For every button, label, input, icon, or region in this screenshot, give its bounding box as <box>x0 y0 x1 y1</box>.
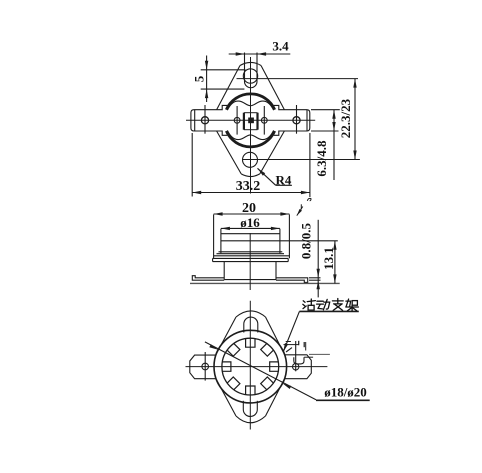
bottom view cap outer circle <box>214 330 287 403</box>
bottom view right tab <box>285 341 311 379</box>
dimension 6.3/4.8 line and arrows <box>332 110 335 180</box>
top view inner contact circle left <box>234 106 240 135</box>
side view cap cylinder edges / extension lines for 16 <box>221 229 280 254</box>
bottom view vertical centerline <box>249 301 251 430</box>
side view cap top and ribs <box>214 234 338 256</box>
svg-text:0.8/0.5: 0.8/0.5 <box>299 222 314 259</box>
dimension 13.1 line and arrows <box>333 241 336 284</box>
dimension 6.3/4.8 extension lines <box>311 110 340 131</box>
dimension 20 line and arrows <box>214 212 290 215</box>
dimension 5 line and arrows <box>205 56 208 103</box>
bottom view cap inner circle <box>222 338 279 395</box>
bottom view top keyhole slot <box>244 317 258 332</box>
top view bimetal bottom wave <box>227 130 273 139</box>
dimension 22.3/23 line and arrows <box>353 79 356 160</box>
side view ceramic base <box>224 262 276 280</box>
bottom hole horizontal centerline / extension for 22.3-23 <box>242 159 360 161</box>
label diameter18/20 text and underline <box>316 384 370 400</box>
surface finish mark <box>297 198 311 215</box>
dimension 0.8/0.5 extension lines <box>309 278 321 280</box>
top view right terminal hole <box>293 105 300 134</box>
side view right terminal <box>276 278 308 283</box>
svg-text:6.3/4.8: 6.3/4.8 <box>314 140 329 177</box>
top view terminal bar left <box>191 105 227 135</box>
svg-text:22.3/23: 22.3/23 <box>338 98 353 138</box>
dimension 3.4 line and arrows <box>229 52 291 55</box>
top view right terminal end fold line <box>306 110 308 131</box>
top view bottom mounting hole <box>243 152 258 167</box>
bottom view left tab <box>190 352 216 381</box>
top view inner contact circle right <box>261 106 267 135</box>
top view left terminal hole <box>201 105 208 134</box>
top view center contact block <box>244 113 258 130</box>
small terminal detail lines near right tab <box>284 341 330 364</box>
top view body circle thick bottom arc <box>226 131 274 147</box>
dimension 33.2 line and arrows <box>192 191 310 194</box>
label R4 leader and arrow <box>258 168 292 185</box>
top view vertical centerline <box>250 57 252 194</box>
side view left terminal <box>192 276 224 281</box>
dimension 33.2 extension lines <box>192 133 310 197</box>
top view bimetal top wave <box>227 101 273 110</box>
top view body circle thick top arc <box>226 94 274 110</box>
side view vertical centerline <box>249 233 251 290</box>
bottom view bottom keyhole slot <box>243 401 257 417</box>
svg-text:ø16: ø16 <box>240 215 260 230</box>
svg-text:ø18/ø20: ø18/ø20 <box>324 384 367 399</box>
bottom view flange outline <box>216 311 285 423</box>
svg-text:20: 20 <box>242 201 256 216</box>
svg-text:13.1: 13.1 <box>321 247 336 270</box>
top view horizontal centerline <box>186 119 315 121</box>
label movable bracket leader <box>283 311 359 352</box>
side view flange plate <box>213 258 289 261</box>
svg-text:R4: R4 <box>276 172 292 187</box>
svg-text:3.4: 3.4 <box>272 39 289 54</box>
top view terminal bar right <box>274 105 310 135</box>
label movable bracket characters <box>303 299 359 311</box>
top hole horizontal centerline / extension for 22.3-23 <box>237 78 359 80</box>
svg-text:33.2: 33.2 <box>236 179 261 194</box>
dimension 5 extension lines <box>201 70 246 89</box>
dimension diameter16 line and arrows <box>221 227 280 230</box>
dimension 0.8/0.5 line and arrows <box>317 220 320 298</box>
dimension diameter18/20 diagonal line and arrows <box>205 342 316 400</box>
bottom view horizontal centerline <box>186 366 328 368</box>
bottom view ceramic teeth <box>222 338 279 395</box>
top view left terminal end fold line <box>194 110 196 131</box>
top view flange outline <box>217 62 285 176</box>
side view base ground line <box>190 282 340 284</box>
side view cap outer edges / extension lines for 20 <box>214 215 290 259</box>
svg-text:5: 5 <box>192 75 207 82</box>
top view keyhole mounting hole <box>243 53 257 88</box>
